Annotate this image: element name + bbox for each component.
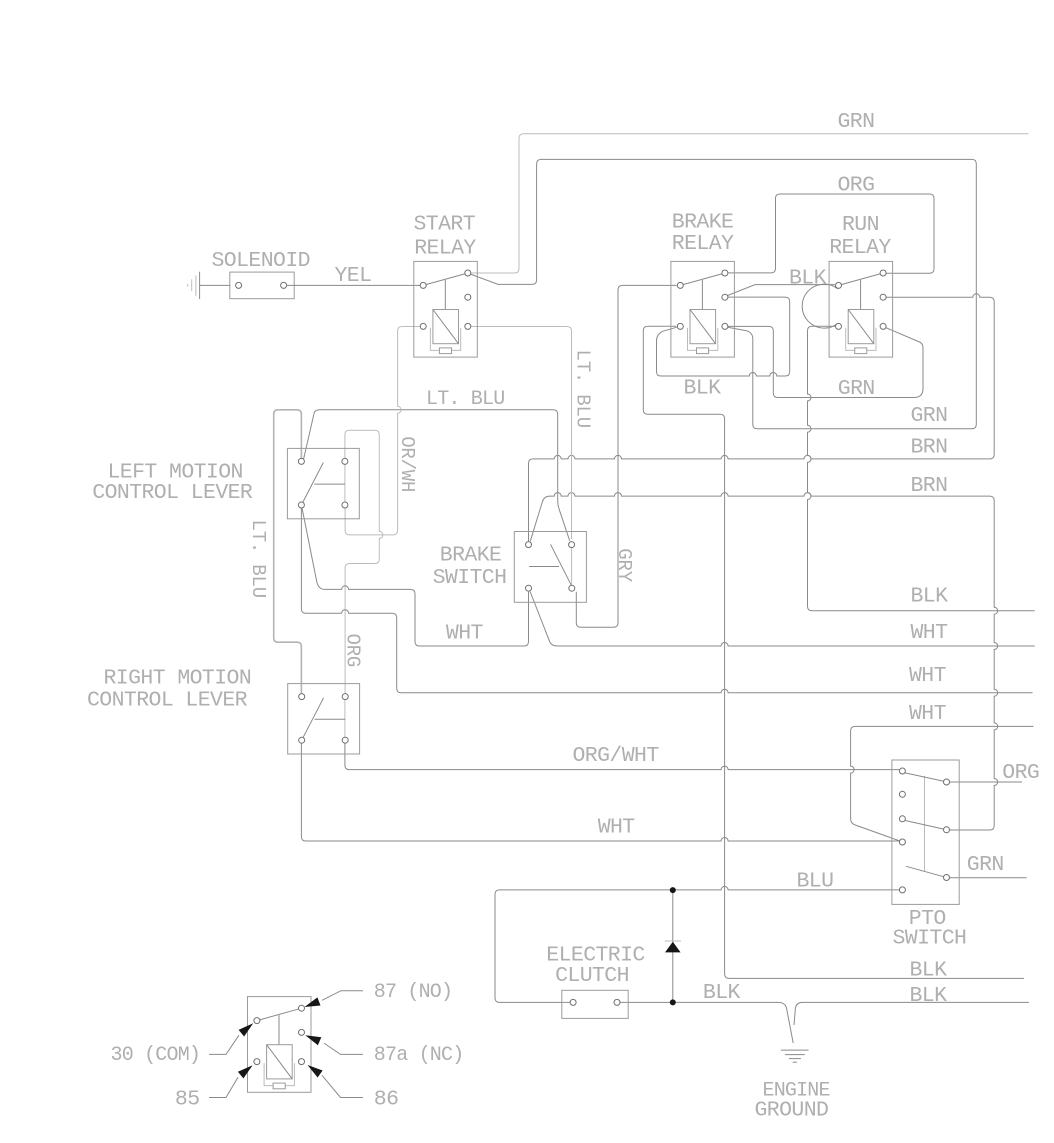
wire WHT right lever BL to PTO bbox=[301, 743, 899, 841]
svg-text:BRAKE: BRAKE bbox=[672, 211, 734, 235]
run relay U3 suppressor bbox=[846, 328, 855, 351]
wire GRN from start relay NO pin to top right bbox=[471, 134, 1029, 273]
start relay U1 pin com bbox=[420, 282, 426, 288]
svg-text:GRY: GRY bbox=[613, 548, 635, 582]
brake relay U2 body bbox=[671, 261, 735, 357]
svg-text:YEL: YEL bbox=[335, 264, 372, 288]
wire clutch to ground junction bbox=[620, 1002, 793, 1043]
wire ORG brake relay NO to run relay NO bbox=[727, 194, 934, 273]
wire LT.BLU left lever to right lever bbox=[274, 410, 302, 694]
brake switch pin TL bbox=[526, 542, 532, 548]
wire through right lever right pins bbox=[344, 700, 346, 737]
svg-text:GRN: GRN bbox=[838, 110, 875, 134]
brake relay U2 coil bbox=[690, 310, 716, 344]
wire ORG PTO pin1R bbox=[949, 781, 1022, 783]
PTO pin 1R bbox=[944, 779, 950, 785]
run relay U3 coil pin right bbox=[880, 323, 886, 329]
svg-text:WHT: WHT bbox=[909, 702, 947, 726]
wire GRN brake coil-right to run relay coil-right bbox=[726, 326, 923, 397]
left motion control lever switch S1 bar bbox=[314, 483, 345, 485]
PTO pin 3R bbox=[944, 875, 950, 881]
relay pinout diagram U4 coil bbox=[267, 1045, 293, 1079]
relay pinout diagram U4 pin NC bbox=[299, 1029, 305, 1035]
wire BLU to PTO pin5 and clutch loop bbox=[495, 886, 900, 1002]
svg-text:OR/WH: OR/WH bbox=[396, 436, 418, 492]
diode D1 bbox=[665, 942, 681, 953]
wire BLK bus to engine ground bbox=[794, 1002, 1029, 1025]
start relay U1 suppressor bbox=[430, 328, 439, 351]
solenoid chassis ground bbox=[199, 272, 201, 299]
brake relay U2 pin NC bbox=[722, 294, 728, 300]
brake switch pin BR bbox=[569, 585, 575, 591]
brake switch pin BL bbox=[526, 585, 532, 591]
junction dot top bbox=[670, 887, 676, 893]
svg-text:BRAKE: BRAKE bbox=[440, 543, 502, 567]
run relay U3 pin NO bbox=[880, 270, 886, 276]
leader 86 bbox=[308, 1065, 323, 1078]
start relay U1 switch arm bbox=[423, 273, 468, 285]
svg-text:ORG: ORG bbox=[1002, 761, 1039, 785]
wire GRY brake relay com to brake switch bbox=[576, 285, 676, 627]
wire WHT left lever BL to WHT bus bbox=[301, 508, 1032, 692]
run relay U3 switch arm bbox=[839, 273, 884, 285]
right motion control lever switch S2 arm bbox=[302, 698, 324, 740]
electric clutch body bbox=[562, 990, 628, 1018]
relay pinout diagram U4 pin NO bbox=[299, 1005, 305, 1011]
solenoid pin left bbox=[236, 282, 242, 288]
svg-text:BRN: BRN bbox=[911, 474, 948, 498]
electric clutch pin left bbox=[570, 999, 576, 1005]
start relay U1 pin NO bbox=[465, 270, 471, 276]
svg-text:BLU: BLU bbox=[797, 869, 834, 893]
wire BRN run relay NC to brake switch bbox=[529, 294, 995, 542]
svg-text:WHT: WHT bbox=[911, 621, 949, 645]
relay pinout diagram U4 body bbox=[248, 997, 312, 1093]
svg-text:BLK: BLK bbox=[703, 981, 741, 1005]
svg-text:GRN: GRN bbox=[838, 377, 875, 401]
svg-text:BLK: BLK bbox=[910, 984, 948, 1008]
run relay U3 actuator link bbox=[860, 280, 862, 310]
svg-text:BLK: BLK bbox=[911, 585, 949, 609]
svg-text:CLUTCH: CLUTCH bbox=[555, 964, 629, 988]
wire LT.BLU to brake switch bbox=[304, 410, 570, 541]
svg-text:WHT: WHT bbox=[598, 815, 636, 839]
wire WHT PTO pin4 to right edge bbox=[851, 726, 1034, 841]
wire ORG left lever TR to right lever bbox=[345, 430, 383, 693]
start relay U1 coil pin right bbox=[465, 323, 471, 329]
right motion control lever switch S2 bar bbox=[315, 718, 346, 720]
svg-text:SWITCH: SWITCH bbox=[893, 927, 967, 951]
leader 30 (COM) bbox=[239, 1023, 254, 1036]
run relay U3 pin NC bbox=[880, 294, 886, 300]
brake relay U2 coil pin left bbox=[677, 323, 683, 329]
wire solenoid ground lead bbox=[200, 284, 231, 286]
leader 85 bbox=[238, 1065, 253, 1078]
relay pinout diagram U4 suppressor bbox=[264, 1063, 273, 1086]
svg-text:GROUND: GROUND bbox=[755, 1099, 829, 1123]
svg-text:START: START bbox=[414, 212, 476, 236]
right motion control lever switch S2 body bbox=[288, 684, 360, 754]
svg-text:BLK: BLK bbox=[684, 376, 722, 400]
brake relay U2 coil pin right bbox=[722, 323, 728, 329]
svg-text:LT. BLU: LT. BLU bbox=[572, 350, 594, 428]
right motion control lever switch S2 pin TL bbox=[299, 694, 305, 700]
svg-text:BLK: BLK bbox=[789, 267, 827, 291]
engine ground symbol bbox=[781, 1049, 809, 1051]
brake switch arm bbox=[551, 544, 572, 585]
svg-text:WHT: WHT bbox=[909, 664, 947, 688]
PTO switch body bbox=[892, 760, 959, 904]
svg-text:RIGHT MOTION: RIGHT MOTION bbox=[104, 666, 252, 690]
brake relay U2 pin com bbox=[677, 282, 683, 288]
svg-text:ORG/WHT: ORG/WHT bbox=[573, 744, 660, 768]
brake switch bar bbox=[529, 566, 559, 568]
right motion control lever switch S2 pin TR bbox=[342, 694, 348, 700]
solenoid body bbox=[230, 272, 294, 299]
PTO pin 1L bbox=[899, 768, 905, 774]
solenoid pin right bbox=[281, 282, 287, 288]
svg-text:ORG: ORG bbox=[341, 634, 363, 668]
svg-text:RELAY: RELAY bbox=[672, 232, 734, 256]
svg-text:GRN: GRN bbox=[967, 853, 1004, 877]
run relay com-coil arc bbox=[802, 284, 838, 328]
svg-text:87a (NC): 87a (NC) bbox=[374, 1044, 464, 1067]
relay pinout diagram U4 actuator link bbox=[278, 1015, 280, 1045]
PTO pin 5L bbox=[899, 887, 905, 893]
wire BLK run relay coil-left down to BLK bus bbox=[808, 326, 1035, 611]
PTO pin 2R bbox=[944, 827, 950, 833]
wire brake relay NC to coil-left loop bbox=[657, 297, 790, 376]
svg-text:GRN: GRN bbox=[911, 404, 948, 428]
start relay U1 coil pin left bbox=[420, 323, 426, 329]
left motion control lever switch S1 pin TR bbox=[342, 458, 348, 464]
svg-text:BLK: BLK bbox=[910, 959, 948, 983]
svg-text:RUN: RUN bbox=[842, 213, 879, 237]
start relay U1 actuator link bbox=[444, 280, 446, 310]
wire WHT brake switch to right edge bbox=[530, 592, 1035, 647]
wire start relay coil-right to brake switch bbox=[471, 327, 572, 540]
svg-text:85: 85 bbox=[175, 1088, 200, 1112]
svg-text:RELAY: RELAY bbox=[414, 236, 476, 260]
wire diode branch bbox=[672, 890, 674, 1002]
relay pinout diagram U4 coil pin left bbox=[254, 1059, 260, 1065]
brake relay U2 switch arm bbox=[680, 273, 725, 285]
wire YEL solenoid to start relay com bbox=[287, 284, 421, 286]
wire ORG/WHT right lever to PTO pin1 bbox=[345, 743, 899, 769]
svg-text:CONTROL LEVER: CONTROL LEVER bbox=[87, 688, 248, 712]
start relay U1 pin NC bbox=[465, 294, 471, 300]
svg-text:WHT: WHT bbox=[446, 621, 484, 645]
start relay U1 body bbox=[414, 261, 478, 357]
svg-text:CONTROL LEVER: CONTROL LEVER bbox=[92, 481, 253, 505]
wire WHT left lever to brake switch bbox=[302, 508, 528, 646]
right motion control lever switch S2 pin BR bbox=[342, 737, 348, 743]
run relay U3 body bbox=[829, 261, 893, 357]
wire OR/WH start relay coil-left to left lever bbox=[345, 327, 420, 535]
svg-text:LT. BLU: LT. BLU bbox=[426, 388, 504, 411]
relay pinout diagram U4 pin com bbox=[254, 1018, 260, 1024]
brake relay U2 suppressor bbox=[688, 328, 697, 351]
svg-text:30 (COM): 30 (COM) bbox=[111, 1044, 201, 1067]
PTO switch arm 3 bbox=[906, 866, 944, 876]
wire BLK brake relay NC to run relay com bbox=[726, 285, 835, 296]
wire BRN brake switch to PTO switch bbox=[530, 493, 997, 830]
right motion control lever switch S2 pin BL bbox=[299, 737, 305, 743]
run relay U3 coil pin left bbox=[836, 323, 842, 329]
left motion control lever switch S1 arm bbox=[301, 463, 323, 505]
PTO switch arm 1 bbox=[905, 773, 944, 781]
svg-text:RELAY: RELAY bbox=[829, 236, 891, 260]
junction dot bottom bbox=[670, 999, 676, 1005]
relay pinout diagram U4 switch arm bbox=[257, 1008, 302, 1020]
brake switch body bbox=[514, 532, 586, 603]
run relay U3 coil bbox=[848, 310, 874, 344]
svg-text:SWITCH: SWITCH bbox=[433, 566, 507, 590]
start relay U1 coil bbox=[433, 310, 459, 344]
leader 87 (NO) bbox=[305, 997, 321, 1007]
leader 87a (NC) bbox=[305, 1035, 321, 1045]
brake relay U2 pin NO bbox=[722, 270, 728, 276]
brake switch through right pins bbox=[571, 548, 573, 585]
left motion control lever switch S1 pin TL bbox=[298, 458, 304, 464]
svg-text:SOLENOID: SOLENOID bbox=[212, 249, 310, 273]
svg-text:87 (NO): 87 (NO) bbox=[374, 981, 452, 1004]
svg-text:ORG: ORG bbox=[838, 173, 875, 197]
PTO pin 4L bbox=[899, 839, 905, 845]
PTO switch arm 2 bbox=[905, 821, 944, 830]
wire GRN PTO pin3R bbox=[949, 877, 1026, 879]
PTO switch gang link bbox=[924, 776, 926, 872]
left motion control lever switch S1 pin BL bbox=[298, 502, 304, 508]
electric clutch pin right bbox=[614, 999, 620, 1005]
svg-text:86: 86 bbox=[374, 1088, 399, 1112]
PTO pin 2L bbox=[899, 791, 905, 797]
wire BLK brake coil-left to bottom BLK bus bbox=[643, 326, 1024, 978]
brake relay U2 actuator link bbox=[701, 280, 703, 310]
run relay U3 pin com bbox=[836, 282, 842, 288]
wire through left lever right pins bbox=[344, 465, 346, 502]
PTO pin 3L bbox=[899, 816, 905, 822]
wire GRN start relay NO to brake relay coil via long loop bbox=[471, 159, 977, 428]
svg-text:LT. BLU: LT. BLU bbox=[247, 520, 269, 598]
left motion control lever switch S1 body bbox=[287, 448, 359, 518]
svg-text:BRN: BRN bbox=[911, 436, 948, 460]
left motion control lever switch S1 pin BR bbox=[342, 502, 348, 508]
brake switch pin TR bbox=[569, 542, 575, 548]
relay pinout diagram U4 coil pin right bbox=[299, 1059, 305, 1065]
